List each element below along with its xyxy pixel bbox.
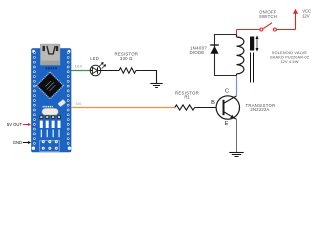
svg-text:2N2222A: 2N2222A (250, 107, 269, 112)
svg-text:D4: D4 (76, 102, 81, 106)
svg-text:DIODE: DIODE (189, 50, 204, 55)
svg-text:5V OUT: 5V OUT (7, 122, 23, 127)
svg-text:GND: GND (13, 140, 22, 145)
svg-text:330 Ω: 330 Ω (120, 56, 133, 61)
svg-text:D10: D10 (75, 65, 82, 69)
svg-text:12V: 12V (302, 13, 310, 18)
svg-text:12V 4.5W: 12V 4.5W (280, 60, 298, 64)
svg-text:C: C (225, 88, 229, 94)
svg-text:LED: LED (90, 56, 99, 61)
svg-text:SOLENOID VALVE: SOLENOID VALVE (272, 51, 307, 55)
svg-text:B: B (211, 100, 215, 106)
svg-text:R1: R1 (184, 95, 190, 100)
svg-text:SHAKO PU220AR-02: SHAKO PU220AR-02 (270, 55, 309, 59)
svg-text:E: E (225, 121, 229, 127)
svg-text:SWITCH: SWITCH (259, 14, 277, 19)
